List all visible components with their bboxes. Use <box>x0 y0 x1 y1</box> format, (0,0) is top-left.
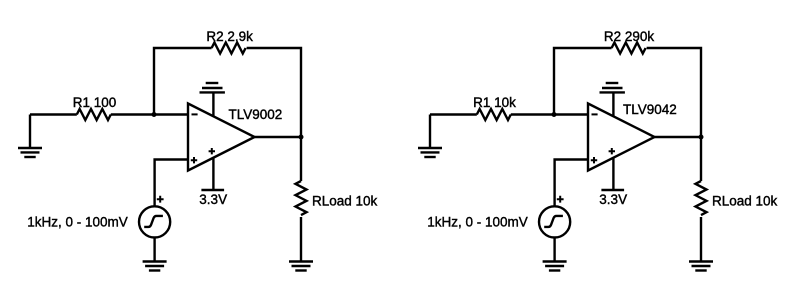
op-amp U2 TLV9042 <box>588 102 677 170</box>
svg-text:3.3V: 3.3V <box>199 192 227 207</box>
svg-text:R2 2.9k: R2 2.9k <box>206 29 253 44</box>
svg-text:R1 10k: R1 10k <box>473 95 516 110</box>
resistor R1 100 <box>73 95 117 120</box>
resistor RLoad 10k (right circuit) <box>696 181 778 215</box>
wire input to R1 <box>30 113 77 115</box>
ground (input, right circuit) <box>418 115 442 158</box>
svg-text:3.3V: 3.3V <box>599 192 627 207</box>
op-amp U1 TLV9002 <box>188 104 282 171</box>
wire feedback left vertical (right) <box>554 48 612 115</box>
wire op-amp output (right) <box>655 136 702 138</box>
resistor R1 10k <box>473 95 516 120</box>
svg-text:RLoad 10k: RLoad 10k <box>312 193 378 208</box>
wire non-inverting input to source <box>155 160 188 207</box>
ground (source, left circuit) <box>143 262 167 271</box>
node D (junction dot at output, right) <box>699 135 704 140</box>
wire R1 to inverting input <box>111 113 188 115</box>
svg-text:R1 100: R1 100 <box>73 95 117 110</box>
ground (RLoad, right circuit) <box>689 262 713 271</box>
svg-text:1kHz, 0 - 100mV: 1kHz, 0 - 100mV <box>427 215 528 230</box>
wire output node to RLoad (right) <box>700 137 702 181</box>
ground (RLoad, left circuit) <box>289 262 313 271</box>
source V1 (1kHz, 0 - 100mV) <box>27 196 170 238</box>
wire feedback left vertical <box>154 48 212 115</box>
wire op-amp output <box>255 136 302 138</box>
resistor RLoad 10k (left circuit) <box>296 181 378 215</box>
wire input to R1 (right) <box>430 113 477 115</box>
svg-text:TLV9042: TLV9042 <box>623 102 677 117</box>
source V2 (1kHz, 0 - 100mV) <box>427 196 570 238</box>
wire RLoad to ground (right) <box>700 217 702 262</box>
ground (V- supply above op-amp, inverted) <box>200 83 225 117</box>
svg-text:TLV9002: TLV9002 <box>229 107 283 122</box>
power 3.3V supply (V+, right) <box>599 157 627 207</box>
wire output node to RLoad <box>300 137 302 181</box>
wire feedback right vertical down to output node (right) <box>647 48 701 137</box>
ground (input, left circuit) <box>18 115 42 158</box>
wire non-inverting input to source (right) <box>555 160 588 207</box>
power 3.3V supply (V+) <box>199 157 227 207</box>
ground (source, right circuit) <box>543 262 567 271</box>
resistor R2 290k (feedback) <box>604 29 655 54</box>
svg-text:R2 290k: R2 290k <box>604 29 655 44</box>
node B (junction dot at output) <box>299 135 304 140</box>
wire feedback right vertical down to output node <box>247 48 301 137</box>
node A (junction dot at inverting input) <box>152 112 157 117</box>
ground (V- supply above op-amp, inverted, right) <box>600 83 625 117</box>
resistor R2 2.9k (feedback) <box>206 29 253 54</box>
wire RLoad to ground <box>300 217 302 262</box>
wire R1 to inverting input (right) <box>511 113 588 115</box>
wire source to ground (right) <box>553 238 555 262</box>
svg-text:RLoad 10k: RLoad 10k <box>712 193 778 208</box>
wire source to ground <box>153 238 155 262</box>
node C (junction dot at inverting input, right) <box>552 112 557 117</box>
svg-text:1kHz, 0 - 100mV: 1kHz, 0 - 100mV <box>27 215 128 230</box>
